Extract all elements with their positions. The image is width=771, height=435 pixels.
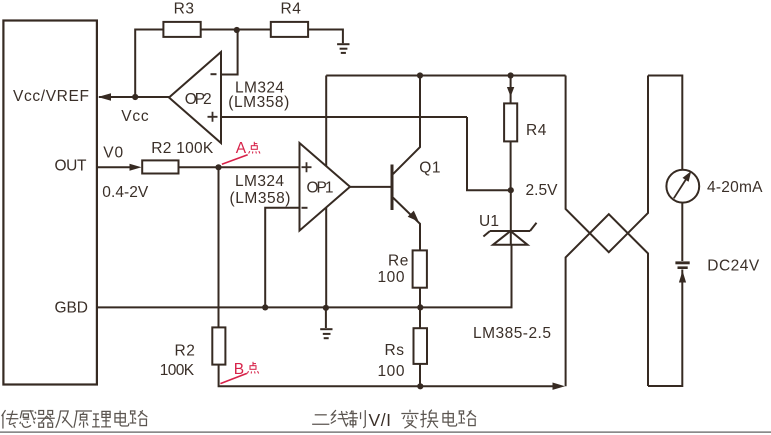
svg-text:V/I: V/I — [369, 410, 392, 430]
svg-text:R2 100K: R2 100K — [151, 140, 214, 157]
svg-text:4-20mA: 4-20mA — [707, 179, 763, 196]
svg-text:OUT: OUT — [55, 157, 88, 174]
sensor block — [3, 21, 97, 385]
resistor R4 top — [271, 0, 308, 37]
svg-text:Vcc/VREF: Vcc/VREF — [13, 88, 90, 105]
svg-text:Q1: Q1 — [419, 159, 441, 176]
wire R2 to node A to OP1 plus — [179, 166, 300, 168]
wire 2.5V node through zener U1 — [510, 190, 512, 245]
wire top rail to R4 vertical — [510, 76, 512, 104]
resistor Rs 100 — [378, 328, 428, 380]
wire Re bottom to GBD rail — [419, 288, 421, 308]
wire Rs bottom to bottom rail — [419, 364, 421, 386]
wire down to 2.5V node — [467, 117, 511, 190]
op-amp OP1 part label LM324 (LM358) — [230, 173, 292, 207]
wire GBD rail to Rs top — [419, 307, 421, 328]
junction R4 to rail — [508, 72, 514, 78]
svg-text:R3: R3 — [174, 0, 195, 17]
wire OP1 inverting to GBD rail — [265, 208, 299, 308]
junction Rs to bottom rail — [417, 383, 423, 389]
node B red label — [220, 361, 258, 384]
resistor R2 100K vertical — [160, 327, 226, 378]
svg-text:Re: Re — [388, 253, 409, 270]
wire Q1 emitter — [393, 198, 420, 251]
svg-text:Vcc: Vcc — [121, 108, 149, 125]
wire top rail — [326, 75, 565, 77]
svg-text:B: B — [234, 361, 245, 378]
wire Vcc output of OP2 to block — [99, 96, 169, 98]
wire R2 lower to bottom rail with arrow end — [219, 365, 554, 387]
node 2.5V junction — [508, 187, 514, 193]
meter 4-20mA — [666, 170, 763, 203]
wire R4 right to ground corner — [308, 30, 343, 44]
arrow into block at Vcc — [98, 93, 111, 100]
wire long vertical to ground — [325, 76, 327, 308]
wire OUT to R2 — [97, 166, 132, 168]
junction Re to GBD rail — [417, 304, 423, 310]
junction collector to rail — [417, 72, 423, 78]
svg-text:OP1: OP1 — [307, 179, 335, 196]
svg-text:100K: 100K — [160, 362, 195, 379]
wire twist upper V — [566, 76, 648, 253]
wire loop top — [648, 76, 682, 170]
svg-text:OP2: OP2 — [185, 91, 213, 108]
wire node to R4 left — [237, 29, 271, 31]
arrow on bottom rail — [553, 383, 566, 390]
arrow down to R4 vertical — [507, 87, 514, 97]
svg-text:LM324: LM324 — [235, 173, 285, 190]
svg-text:100: 100 — [378, 363, 406, 380]
ground top right — [337, 44, 349, 53]
wire R3 right to node — [201, 29, 237, 31]
svg-text:R4: R4 — [526, 122, 547, 139]
wire R4 vertical to 2.5V node — [510, 141, 512, 190]
svg-text:(LM358): (LM358) — [230, 190, 292, 207]
svg-text:(LM358): (LM358) — [228, 94, 289, 111]
svg-text:DC24V: DC24V — [707, 258, 760, 275]
junction ground to GBD rail — [323, 305, 329, 311]
zener diode U1 — [479, 213, 537, 245]
wire Vcc node up to R3 left — [135, 30, 163, 98]
svg-text:2.5V: 2.5V — [526, 182, 559, 199]
wire meter to battery — [681, 203, 683, 261]
resistor R2 100K horizontal — [142, 140, 214, 174]
resistor R4 vertical — [504, 103, 547, 141]
svg-text:V0: V0 — [103, 144, 124, 161]
svg-text:0.4-2V: 0.4-2V — [102, 184, 149, 201]
wire ground stub below rail — [325, 307, 327, 328]
svg-text:U1: U1 — [479, 213, 500, 230]
battery DC24V — [675, 258, 760, 275]
wire twist lower inverted V — [566, 214, 648, 386]
resistor Re 100 — [378, 250, 427, 287]
junction node Vcc — [132, 94, 138, 100]
svg-text:LM385-2.5: LM385-2.5 — [473, 325, 552, 342]
arrow on OUT wire — [130, 164, 142, 171]
svg-text:R4: R4 — [281, 0, 302, 17]
junction OP1- to GBD rail — [262, 304, 268, 310]
resistor R3 — [163, 0, 200, 37]
wire OP2 non-inverting input rail — [221, 116, 467, 118]
node A junction — [215, 164, 221, 170]
bottom rule — [0, 431, 771, 433]
wire OP1 output to Q1 base — [350, 186, 392, 188]
caption left: 传感器及原理电路 — [2, 410, 148, 428]
wire GBD rail — [97, 245, 512, 308]
wire Q1 collector — [393, 76, 420, 175]
svg-text:R2: R2 — [175, 343, 196, 360]
caption right: 二线制V/I变换电路 — [312, 410, 365, 428]
op-amp OP1 — [300, 143, 351, 231]
wire OP2 inverting input to node — [221, 30, 238, 75]
junction node R3/R4/OP2- — [234, 27, 240, 33]
node A red label — [222, 140, 260, 165]
svg-text:GBD: GBD — [55, 299, 89, 316]
svg-text:100: 100 — [378, 269, 406, 286]
wire battery to loop bottom — [648, 270, 682, 387]
wire node A down to R2 lower — [218, 167, 220, 327]
transistor Q1 — [392, 159, 441, 221]
arrow up to battery minus — [679, 271, 686, 283]
svg-text:A: A — [236, 140, 247, 157]
ground below GBD rail — [320, 329, 332, 338]
op-amp OP2 — [169, 52, 221, 143]
op-amp OP2 part label LM324 (LM358) — [228, 80, 289, 111]
svg-text:Rs: Rs — [385, 342, 405, 359]
